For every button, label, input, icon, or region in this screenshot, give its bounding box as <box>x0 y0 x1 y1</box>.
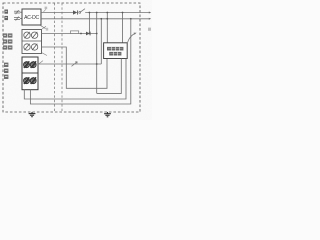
wire H4 solar - output <box>42 47 108 88</box>
AC input terminal top <box>14 10 20 14</box>
ground symbol right <box>104 112 111 117</box>
label 电 char 2 <box>4 16 8 20</box>
wire H3 solar + output <box>42 33 97 35</box>
vertical v5 wireA to mgmt box top <box>122 13 124 43</box>
wire: mains to AC-DC bottom <box>20 18 22 20</box>
label 池 <box>4 75 8 79</box>
annotation pointer battery <box>39 61 43 64</box>
inductor/fuse bump L1 on H3 <box>71 31 79 34</box>
label 太阳 line 1 <box>3 33 12 37</box>
AC-DC converter box U1 <box>22 9 41 25</box>
vertical v1 wireA to H3 <box>88 13 90 34</box>
diode D2 on H3 <box>86 32 90 36</box>
inner dashed partition line 1 <box>54 3 56 112</box>
solar cell 3 <box>24 44 30 51</box>
vertical v2 long <box>96 13 98 94</box>
solar cell 4 <box>31 44 37 51</box>
battery cell 4 <box>30 77 36 84</box>
switch K1 on wire A <box>79 12 81 14</box>
battery box <box>22 57 38 90</box>
label 蓄 <box>4 63 8 67</box>
battery bottom pin 2 wire to wire B <box>30 19 130 104</box>
vertical v3 wireB to battery wire <box>100 19 102 64</box>
output arrow A <box>149 12 151 14</box>
solar cell 2 <box>31 32 37 39</box>
battery bottom pin 1 wire to box bottom <box>24 59 126 100</box>
battery cell 2 <box>30 61 36 68</box>
label 能电 line 2 <box>3 39 12 43</box>
solar cell 1 <box>24 32 30 39</box>
label 池板 line 3 <box>3 45 12 49</box>
diode D1 on wire A <box>73 10 77 14</box>
battery box divider <box>22 72 38 74</box>
label 电 <box>4 69 8 73</box>
wire A (+ bus) from AC-DC <box>41 12 73 14</box>
annotation pointer AC-DC <box>41 26 46 29</box>
box text line 2: 理电路 <box>109 52 121 56</box>
solar box divider <box>22 40 42 42</box>
reference numeral smudge <box>148 28 151 31</box>
wire B (- bus) from AC-DC <box>41 18 149 20</box>
battery cell 1 <box>24 61 30 68</box>
annotation arrow on battery wire <box>72 62 78 67</box>
output arrow B <box>149 18 151 20</box>
annotation pointer solar bottom <box>42 53 47 56</box>
battery cell 3 <box>24 77 30 84</box>
label 市 (mains) char 1 <box>4 10 8 14</box>
AC input terminal bottom <box>14 17 20 21</box>
vertical v4 wireA to mgmt box top <box>106 13 108 43</box>
bottom wire w2: v2 down across to box bottom pin <box>97 59 122 94</box>
curled annotation arrow to box <box>128 33 135 42</box>
ground symbol at bottom border <box>29 112 36 117</box>
annotation pointer solar top <box>42 26 46 29</box>
box text line 1: 充放电管 <box>107 47 123 51</box>
solar panel box <box>22 30 42 54</box>
battery + wire <box>38 63 101 65</box>
inner dashed partition line 2 <box>61 3 63 112</box>
junction dots <box>89 12 132 65</box>
charge/discharge management circuit box <box>104 43 128 59</box>
annotation tick wire A <box>44 9 46 11</box>
wire: mains to AC-DC top <box>20 11 22 13</box>
outer dashed system border <box>3 3 140 112</box>
wire A continues to output <box>85 12 149 14</box>
